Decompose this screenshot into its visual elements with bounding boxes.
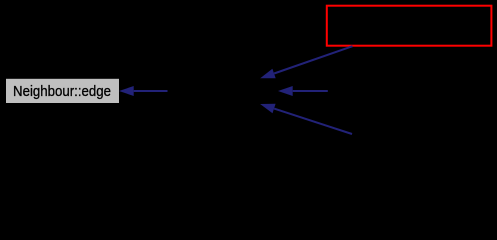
- svg-text:Neighbour::edge: Neighbour::edge: [13, 84, 111, 100]
